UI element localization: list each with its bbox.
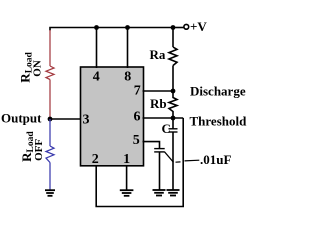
capacitor C lead from node	[172, 118, 174, 129]
wire left rail top (red, to R load ON)	[49, 30, 51, 66]
node junction pin8 rail	[125, 25, 130, 30]
svg-text:Rb: Rb	[150, 96, 167, 111]
wire pin 5 to bypass cap	[143, 142, 160, 149]
node junction Ra / +V	[171, 25, 176, 30]
svg-text:1: 1	[123, 152, 130, 167]
wire pin 1 to ground	[126, 165, 128, 190]
ground (below C)	[167, 190, 180, 196]
svg-text:6: 6	[134, 109, 141, 124]
leader line to .01uF label	[165, 152, 174, 163]
label RLoad ON (rotated)	[18, 51, 44, 82]
wire +V to Ra	[172, 28, 174, 48]
node junction pin 6 / threshold	[171, 116, 176, 121]
svg-text:7: 7	[134, 84, 141, 99]
svg-text:Output: Output	[1, 110, 42, 125]
IC U1 555 timer body	[81, 67, 144, 166]
capacitor .01uF plates	[154, 148, 165, 150]
svg-text:+V: +V	[190, 19, 207, 34]
svg-text:4: 4	[93, 69, 100, 84]
wire RLoad-ON to output node (red)	[49, 80, 51, 120]
wire bypass cap to ground	[159, 152, 161, 190]
resistor RLoad-OFF (blue zigzag)	[46, 146, 54, 163]
svg-text:Ra: Ra	[150, 47, 166, 62]
resistor RLoad-ON (red zigzag)	[46, 66, 54, 80]
svg-text:.01uF: .01uF	[200, 152, 231, 167]
wire rail to pin 4	[96, 28, 98, 69]
node junction pin4 rail	[94, 25, 99, 30]
svg-text:2: 2	[92, 152, 99, 167]
wire pin 6 through node to right corner	[143, 117, 184, 119]
wire C to ground	[172, 132, 174, 190]
ground (left, below RLoad OFF)	[45, 190, 55, 196]
wire output node to pin 3	[50, 118, 81, 120]
svg-text:Threshold: Threshold	[190, 114, 248, 129]
wire pin 7 to node	[143, 90, 174, 92]
wire threshold loop down right side	[96, 118, 183, 207]
wire output node down (blue, to R load OFF)	[49, 119, 51, 146]
wire RLoad-OFF to ground (blue)	[49, 163, 51, 190]
terminal +V circle	[184, 24, 189, 29]
svg-text:ON: ON	[32, 60, 44, 77]
svg-text:OFF: OFF	[33, 139, 45, 161]
ground (below pin 1)	[120, 190, 134, 196]
wire rail to +V terminal	[174, 27, 184, 29]
wire Ra to pin7 node	[172, 66, 174, 92]
svg-text:5: 5	[133, 133, 140, 148]
svg-text:3: 3	[83, 112, 90, 127]
svg-text:Discharge: Discharge	[190, 84, 246, 99]
resistor Ra zigzag	[169, 47, 177, 66]
capacitor C plates	[169, 128, 178, 130]
node junction pin 7 / discharge	[171, 89, 176, 94]
wire top rail +V	[50, 28, 174, 31]
ground (below bypass cap)	[153, 190, 166, 196]
wire rail to pin 8	[127, 28, 129, 69]
resistor Rb zigzag	[169, 91, 177, 118]
label RLoad OFF (rotated)	[19, 131, 45, 162]
svg-text:8: 8	[124, 69, 131, 84]
node output junction	[48, 117, 53, 122]
svg-text:C: C	[162, 121, 171, 136]
